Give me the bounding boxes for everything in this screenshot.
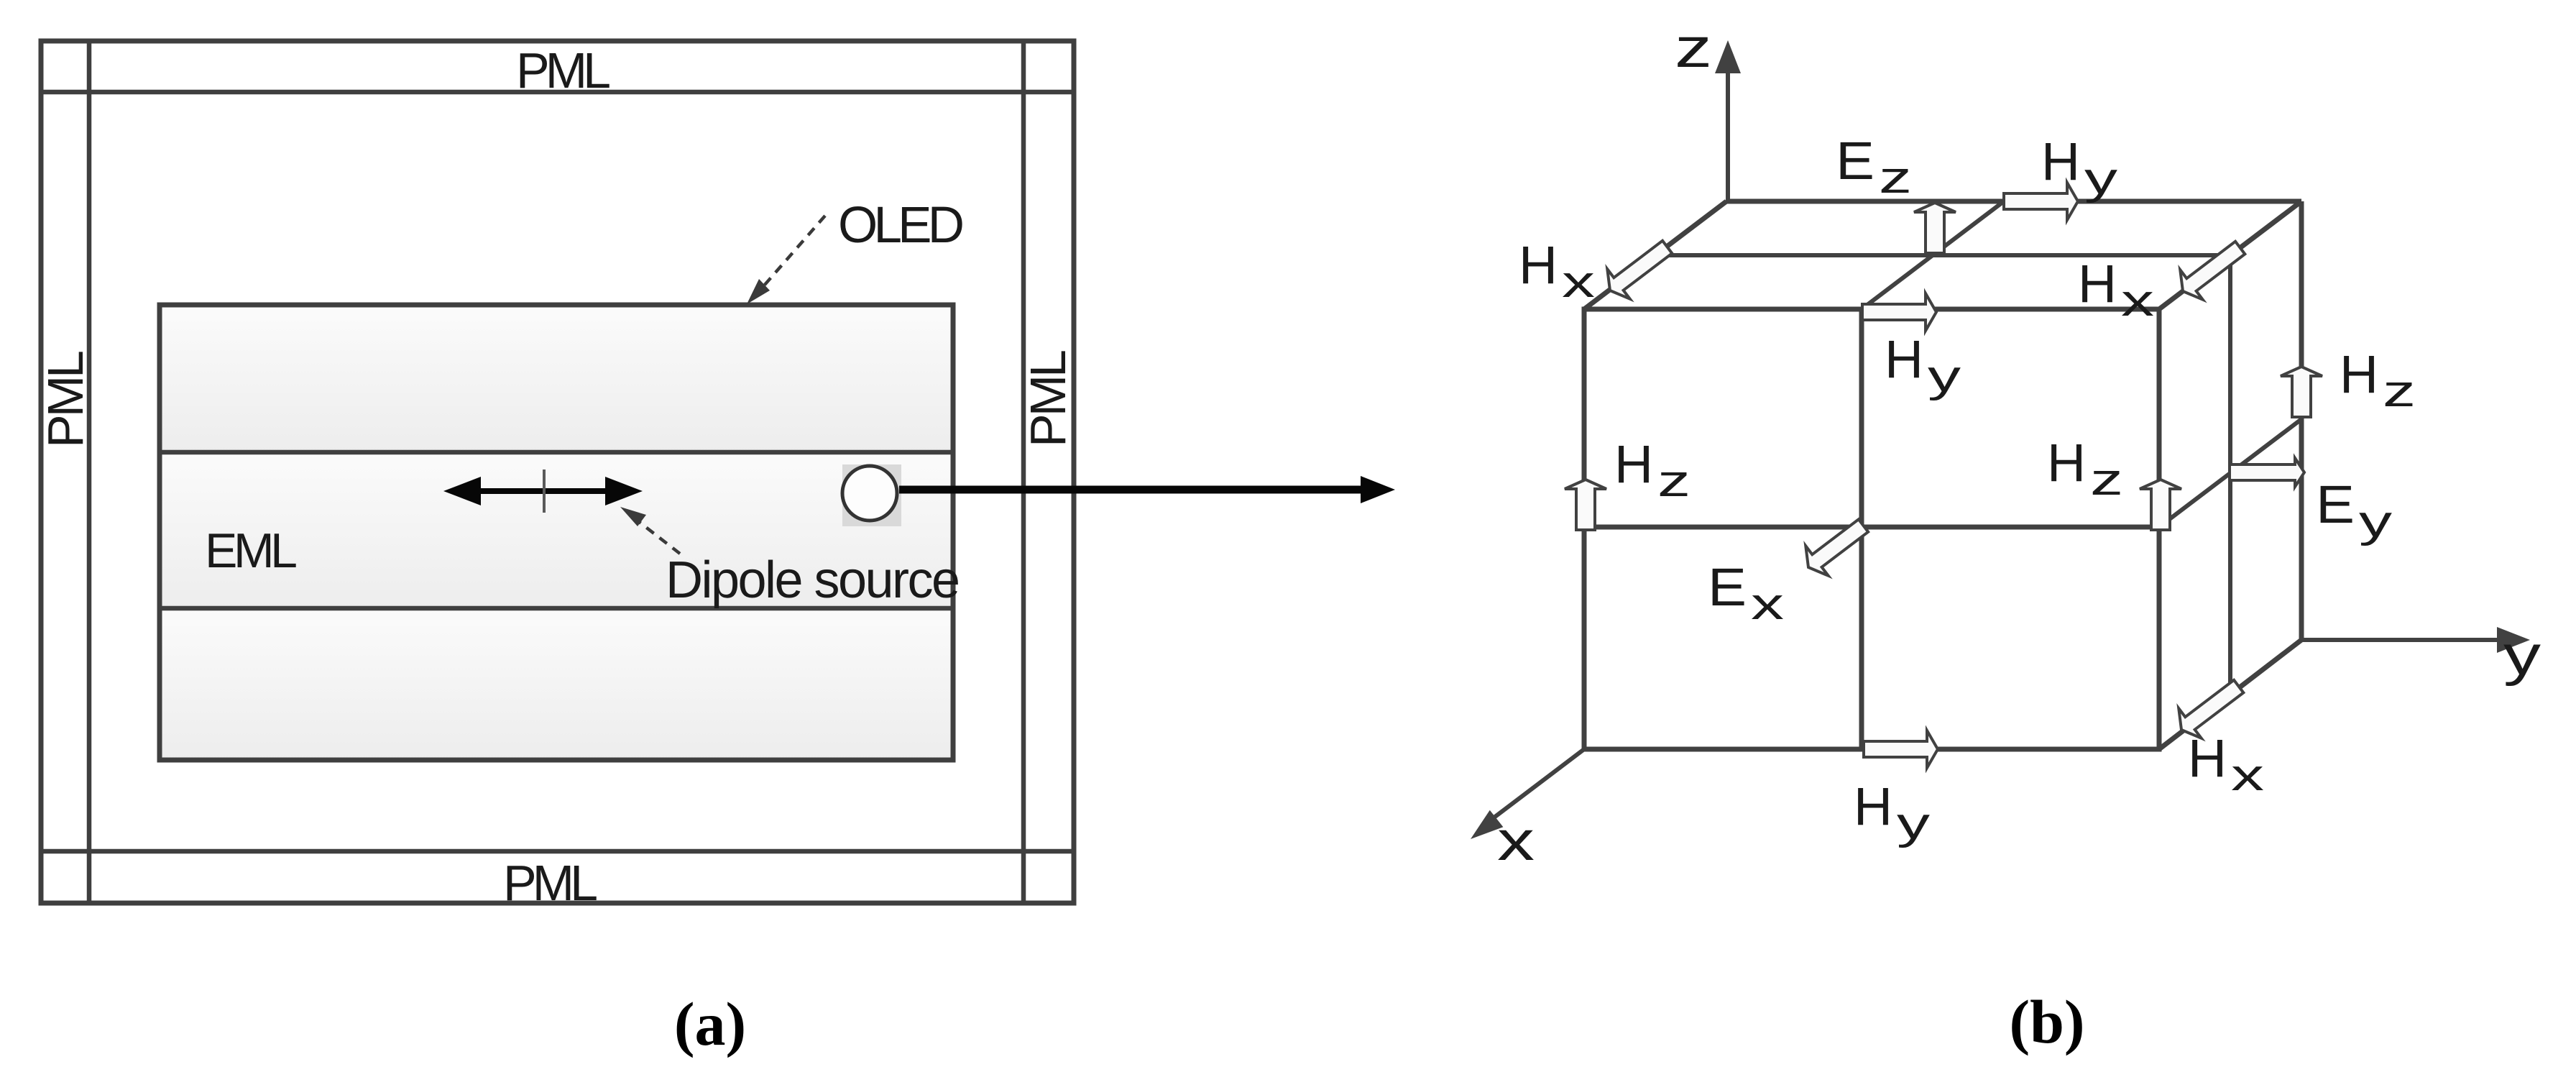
z axis (1715, 40, 1741, 201)
PML label bottom (503, 855, 598, 911)
PML label right (1020, 349, 1076, 447)
top face mid depth line (1655, 253, 2230, 257)
EML bottom line (160, 606, 953, 611)
svg-text:EML: EML (205, 523, 298, 578)
right face mid depth vertical (2228, 255, 2232, 695)
top left depth edge (1584, 201, 1726, 309)
OLED box border (160, 305, 953, 760)
svg-text:Ex: Ex (1708, 557, 1784, 629)
x axis label (1497, 809, 1535, 872)
svg-text:Hx: Hx (2078, 254, 2154, 326)
bottom right depth edge (2159, 640, 2301, 749)
dipole marker circle (842, 466, 897, 521)
label Hz front-right (2047, 433, 2123, 505)
y axis label (2503, 623, 2541, 687)
link arrow from circle to Yee cell (899, 476, 1395, 503)
svg-text:Hy: Hy (1854, 777, 1930, 848)
label Hx top-left (1519, 235, 1595, 307)
svg-text:Hz: Hz (2047, 433, 2123, 505)
field arrow Hx bottom-right (2170, 672, 2250, 745)
svg-text:x: x (1497, 809, 1535, 872)
field arrow Ey (2230, 458, 2304, 487)
field arrow Ez (1914, 203, 1956, 253)
right face mid height line (2159, 419, 2301, 527)
PML label left (37, 350, 93, 448)
front face mid vertical (1859, 309, 1864, 749)
field arrow Hy bottom (1864, 731, 1938, 768)
OLED layer EML fill (160, 452, 953, 608)
label Hy top (2041, 132, 2117, 203)
back right vertical edge (2299, 201, 2304, 640)
svg-text:Hz: Hz (2340, 344, 2416, 416)
y axis (2301, 627, 2530, 653)
label Hz front-left (1614, 434, 1690, 506)
PML outer frame (41, 41, 1074, 903)
svg-text:Hx: Hx (1519, 235, 1595, 307)
label Ez (1836, 131, 1912, 203)
PML inner right line (1021, 41, 1026, 903)
svg-text:OLED: OLED (838, 197, 965, 254)
top face mid x line (1862, 201, 2004, 309)
x axis (1464, 749, 1584, 848)
svg-text:Hz: Hz (1614, 434, 1690, 506)
OLED layer 3 fill (160, 608, 953, 760)
svg-text:Ey: Ey (2316, 475, 2392, 546)
OLED pointer dashed arrow (747, 216, 825, 304)
dipole source pointer dashed arrow (620, 507, 680, 554)
svg-text:PML: PML (37, 350, 93, 448)
field arrow Hy top (2004, 183, 2078, 220)
field arrow Ex (1797, 510, 1874, 582)
label Hy bottom (1854, 777, 1930, 848)
label Ey (2316, 475, 2392, 546)
PML inner left line (87, 41, 92, 903)
dipole center tick (543, 470, 546, 513)
field arrow Hx top-left (1598, 232, 1678, 306)
field arrow Hx top-right (2171, 233, 2251, 306)
field arrow Hy mid (1862, 293, 1936, 331)
OLED label (838, 197, 965, 254)
PML inner bottom line (41, 849, 1074, 854)
svg-text:PML: PML (1020, 349, 1076, 447)
caption (b) (2009, 987, 2084, 1056)
label Hz back-right (2340, 344, 2416, 416)
label Ex (1708, 557, 1784, 629)
label Hx top-right (2078, 254, 2154, 326)
field arrow Hz front-left (1565, 480, 1606, 530)
z axis label (1675, 16, 1712, 79)
label Hx bottom-right (2188, 728, 2264, 800)
svg-text:Hy: Hy (1885, 329, 1961, 401)
top back edge (1726, 199, 2301, 204)
EML top line (160, 450, 953, 455)
label Hy mid (1885, 329, 1961, 401)
svg-text:(a): (a) (674, 989, 746, 1058)
Dipole source label (666, 551, 960, 609)
field arrow Hz back-right (2281, 367, 2322, 417)
top right depth edge (2159, 201, 2301, 309)
svg-text:Hx: Hx (2188, 728, 2264, 800)
OLED layer 1 fill (160, 305, 953, 452)
svg-text:PML: PML (503, 855, 598, 911)
svg-text:z: z (1675, 16, 1712, 79)
front face mid horizontal (1584, 525, 2159, 530)
svg-text:Dipole source: Dipole source (666, 551, 960, 609)
PML inner top line (41, 90, 1074, 95)
dipole source double arrow (443, 477, 643, 505)
svg-text:Ez: Ez (1836, 131, 1912, 203)
svg-text:PML: PML (516, 42, 611, 99)
svg-text:(b): (b) (2009, 987, 2084, 1056)
caption (a) (674, 989, 746, 1058)
svg-text:y: y (2503, 623, 2541, 687)
EML label (205, 523, 298, 578)
field arrow Hz front-right (2140, 480, 2181, 530)
dipole marker gray square (842, 464, 901, 526)
front face rect (1584, 309, 2159, 749)
PML label top (516, 42, 611, 99)
